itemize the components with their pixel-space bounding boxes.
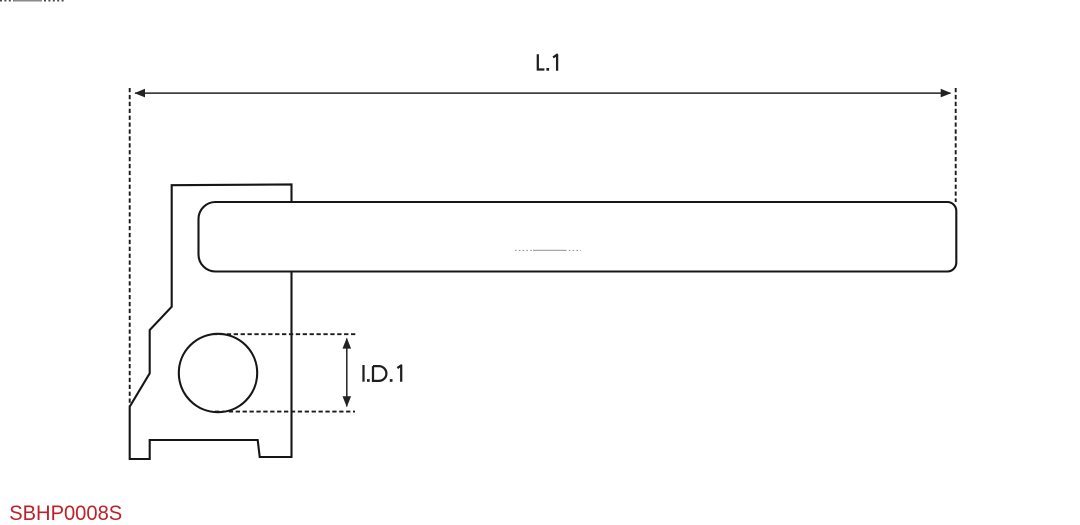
L.1 left extension line — [129, 88, 131, 406]
L.1 right arrowhead — [941, 89, 952, 98]
I.D.1 label — [364, 365, 402, 382]
svg-text:SBHP0008S: SBHP0008S — [9, 501, 122, 525]
I.D.1 arrow line — [346, 339, 348, 407]
I.D.1 top dashed line — [213, 333, 357, 335]
L.1 label — [538, 54, 557, 70]
I.D.1 bottom arrowhead — [343, 396, 352, 407]
L.1 right extension line — [955, 88, 957, 202]
bracket outline — [130, 184, 292, 459]
L.1 dimension line — [135, 92, 951, 94]
cropped logo strip top-left — [0, 0, 64, 2]
I.D.1 top arrowhead — [343, 338, 352, 349]
bore circle — [179, 334, 257, 412]
I.D.1 bottom dashed line — [215, 411, 355, 413]
L.1 left arrowhead — [134, 89, 145, 98]
shaft bar — [199, 202, 957, 272]
watermark — [515, 249, 581, 251]
